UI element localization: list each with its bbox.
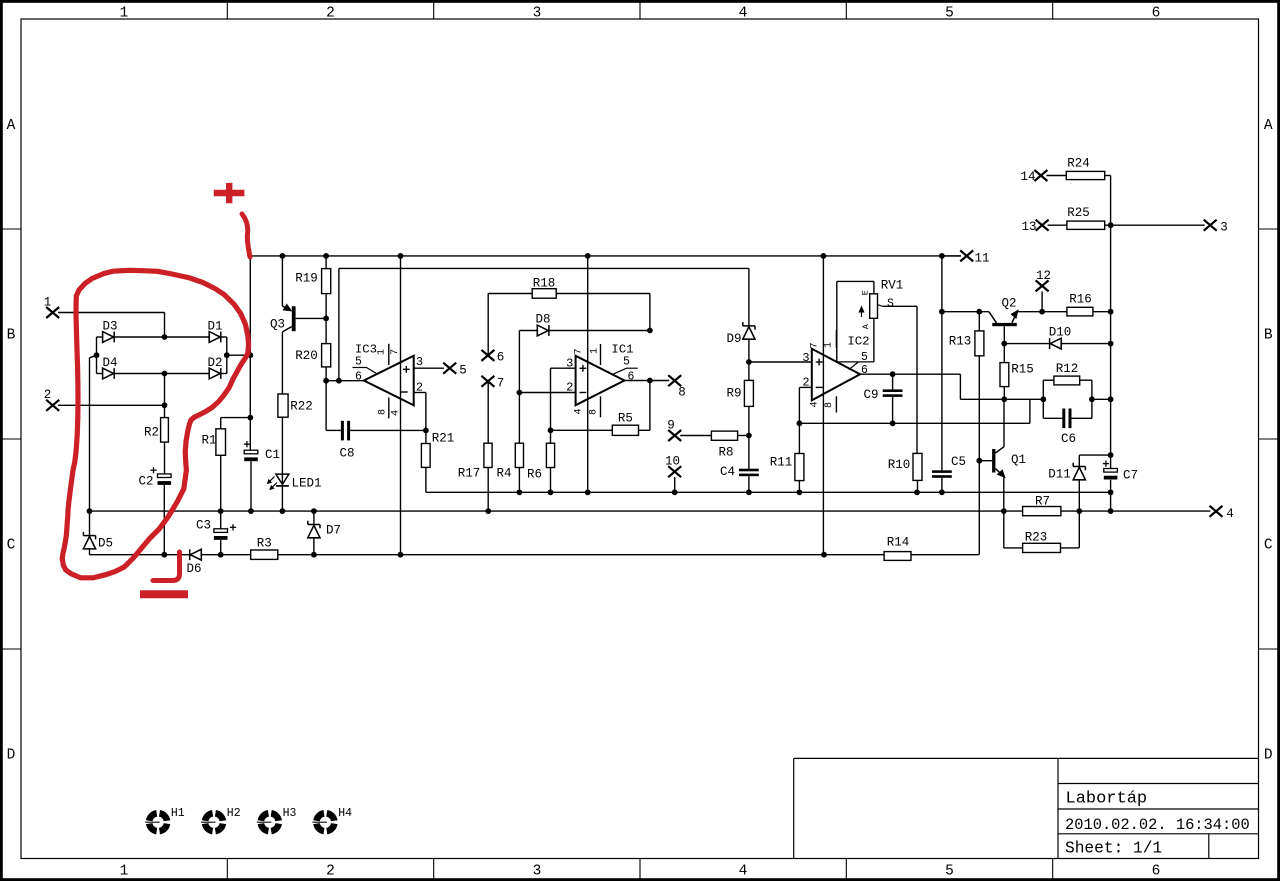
title block outline (794, 758, 1259, 858)
capacitor C2 (138, 467, 171, 555)
diode D4 (97, 356, 168, 379)
svg-text:H2: H2 (227, 807, 241, 820)
resistor R19 (295, 256, 330, 344)
svg-text:1: 1 (120, 6, 129, 22)
svg-text:7: 7 (497, 377, 505, 391)
svg-text:3: 3 (1220, 221, 1228, 235)
svg-text:4: 4 (739, 864, 748, 880)
svg-text:1: 1 (120, 864, 129, 880)
title text sheet (1065, 840, 1162, 858)
resistor R15 (1000, 344, 1034, 403)
svg-text:8: 8 (824, 402, 835, 408)
svg-text:6: 6 (497, 351, 505, 365)
svg-text:4: 4 (574, 408, 585, 414)
svg-text:C4: C4 (720, 465, 735, 479)
svg-text:R10: R10 (888, 458, 911, 472)
svg-text:8: 8 (678, 386, 686, 400)
resistor R1 (201, 418, 250, 512)
svg-text:5: 5 (459, 364, 467, 378)
svg-text:C3: C3 (196, 519, 211, 533)
title block row lines (1058, 784, 1259, 859)
frame column labels top (120, 6, 1161, 22)
resistor R9 (726, 362, 753, 436)
resistor R13 (949, 312, 984, 555)
trimmer RV1 (837, 278, 917, 362)
svg-text:6: 6 (628, 370, 635, 383)
svg-text:2: 2 (416, 381, 423, 395)
capacitor C9 (863, 371, 902, 426)
svg-text:3: 3 (533, 6, 542, 22)
svg-text:A: A (861, 323, 871, 329)
svg-text:1: 1 (44, 296, 52, 310)
svg-text:5: 5 (355, 356, 362, 369)
svg-text:11: 11 (974, 252, 989, 266)
svg-text:IC3: IC3 (355, 343, 377, 357)
svg-text:D11: D11 (1048, 467, 1071, 481)
svg-text:6: 6 (1152, 6, 1161, 22)
svg-text:D10: D10 (1049, 326, 1072, 340)
capacitor C4 (720, 436, 759, 493)
svg-text:5: 5 (861, 351, 868, 364)
red annotation minus sign (140, 590, 188, 598)
terminal 12 (1036, 269, 1051, 312)
svg-text:RV1: RV1 (881, 278, 904, 292)
svg-text:C2: C2 (138, 475, 153, 489)
svg-text:R13: R13 (949, 335, 972, 349)
frame column labels bottom (120, 864, 1161, 880)
wire top +V rail (250, 253, 961, 259)
capacitor C3 (196, 511, 236, 555)
svg-text:6: 6 (1152, 864, 1161, 880)
svg-text:3: 3 (566, 357, 573, 371)
mounting hole H4 (312, 807, 352, 831)
svg-text:1: 1 (824, 342, 835, 348)
svg-text:D: D (7, 748, 16, 764)
title text date (1065, 816, 1250, 834)
wire bridge left rail (90, 337, 100, 511)
svg-text:9: 9 (667, 418, 675, 432)
op-amp IC3 (326, 256, 444, 555)
svg-text:H3: H3 (283, 807, 297, 820)
svg-text:Labortáp: Labortáp (1066, 790, 1148, 809)
terminal X1 (44, 296, 168, 340)
resistor R18 (488, 276, 650, 330)
resistor R21 (421, 430, 454, 492)
svg-text:14: 14 (1020, 170, 1035, 184)
resistor R16 (1067, 292, 1114, 316)
wire Q2 emitter to R16 (1017, 309, 1067, 315)
svg-text:A: A (7, 118, 16, 134)
wire ground rail y492 (426, 489, 1114, 495)
svg-text:4: 4 (390, 410, 401, 416)
svg-text:3: 3 (533, 864, 542, 880)
svg-text:6: 6 (861, 364, 868, 377)
svg-text:R8: R8 (718, 445, 733, 459)
svg-text:LED1: LED1 (291, 477, 321, 491)
svg-text:R23: R23 (1025, 530, 1048, 544)
diode D2 (165, 356, 227, 379)
op-amp IC1 (566, 256, 638, 492)
svg-text:H1: H1 (171, 807, 185, 820)
red annotation L mark at D6 (153, 552, 180, 581)
wire +V vertical from bridge (247, 256, 253, 450)
resistor R22 (278, 394, 313, 474)
red annotation squiggle to +V rail (242, 214, 250, 257)
svg-text:5: 5 (623, 356, 630, 369)
svg-text:D1: D1 (207, 320, 222, 334)
svg-text:D4: D4 (102, 356, 117, 370)
svg-text:D7: D7 (326, 524, 341, 538)
svg-text:5: 5 (945, 6, 954, 22)
frame row ticks right (1259, 229, 1279, 649)
terminal X5 (443, 363, 467, 378)
svg-text:R20: R20 (295, 349, 318, 363)
frame row ticks left (2, 229, 21, 649)
wire IC1 inverting net (519, 392, 575, 394)
svg-text:7: 7 (390, 349, 401, 355)
mounting hole H3 (257, 807, 297, 831)
svg-text:A: A (1264, 118, 1273, 134)
svg-text:4: 4 (739, 6, 748, 22)
resistor R3 (251, 537, 278, 560)
svg-text:R6: R6 (527, 468, 542, 482)
svg-text:R7: R7 (1035, 494, 1050, 508)
transistor Q1 (979, 399, 1026, 511)
terminal X3 (1204, 220, 1228, 235)
resistor R5 (551, 381, 650, 436)
wire IC2 output run (860, 374, 1046, 402)
svg-text:D: D (1264, 748, 1273, 764)
svg-text:D9: D9 (726, 332, 741, 346)
zener diode D9 (726, 322, 755, 365)
title text Labortap (1066, 790, 1148, 809)
svg-text:6: 6 (355, 371, 362, 384)
wire IC2 inverting feedback net y423 (799, 399, 1030, 423)
frame column ticks top (227, 2, 1052, 19)
svg-text:5: 5 (945, 864, 954, 880)
transistor Q3 (270, 256, 326, 394)
diode D8 (519, 312, 652, 392)
diode D3 (97, 320, 165, 343)
svg-text:R16: R16 (1069, 292, 1092, 306)
resistor R8 (680, 431, 752, 459)
frame row labels left (7, 118, 16, 764)
frame row labels right (1264, 118, 1273, 764)
svg-text:C6: C6 (1061, 432, 1076, 446)
svg-text:C5: C5 (951, 455, 966, 469)
svg-text:R24: R24 (1067, 156, 1090, 170)
diode D1 (165, 320, 227, 343)
svg-text:S: S (887, 298, 894, 311)
svg-text:3: 3 (802, 351, 809, 365)
capacitor C8 (326, 381, 429, 461)
capacitor C1 (244, 441, 280, 511)
terminal X10 (665, 455, 681, 493)
svg-text:10: 10 (665, 455, 680, 469)
capacitor C7 (1103, 461, 1138, 483)
resistor R10 (888, 453, 922, 492)
svg-text:4: 4 (810, 401, 821, 407)
svg-text:R3: R3 (257, 537, 272, 551)
svg-text:8: 8 (589, 409, 600, 415)
resistor R17 (458, 443, 492, 511)
resistor R2 (144, 374, 168, 474)
svg-text:Q2: Q2 (1001, 297, 1016, 311)
resistor R12 capacitor C6 parallel (1043, 362, 1110, 446)
resistor R14 (884, 536, 911, 561)
transistor Q2 (989, 297, 1018, 344)
terminal X11 (942, 250, 990, 265)
svg-text:R21: R21 (432, 432, 455, 446)
svg-text:R15: R15 (1011, 362, 1034, 376)
svg-text:IC2: IC2 (847, 335, 869, 349)
svg-text:B: B (7, 328, 16, 344)
svg-text:E: E (861, 290, 871, 295)
svg-text:2: 2 (44, 388, 52, 402)
wire second rail IC3 feedback to D9 (339, 268, 749, 380)
svg-text:8: 8 (378, 409, 389, 415)
svg-text:R1: R1 (201, 434, 216, 448)
svg-text:7: 7 (810, 342, 821, 348)
svg-text:Sheet: 1/1: Sheet: 1/1 (1065, 840, 1162, 858)
svg-text:R18: R18 (533, 276, 556, 290)
svg-text:C: C (7, 538, 16, 554)
zener diode D11 (1048, 455, 1110, 511)
wire RV1 wiper to R10 (916, 306, 918, 453)
svg-text:R9: R9 (726, 387, 741, 401)
svg-text:C7: C7 (1123, 468, 1138, 482)
svg-text:B: B (1264, 328, 1273, 344)
wire bridge right rail (224, 337, 250, 374)
resistor R25 (1021, 206, 1113, 234)
svg-text:R4: R4 (496, 467, 511, 481)
wire right vertical bus (1108, 176, 1114, 512)
svg-text:C1: C1 (265, 448, 280, 462)
op-amp IC2 (799, 256, 874, 555)
wire bottom rail y554.7 (90, 552, 979, 558)
LED LED1 (268, 474, 322, 511)
terminal X4 (1210, 506, 1234, 521)
svg-text:2: 2 (326, 864, 335, 880)
svg-text:1: 1 (377, 349, 388, 355)
svg-text:13: 13 (1021, 220, 1036, 234)
svg-text:R19: R19 (295, 272, 318, 286)
terminal X8 (668, 375, 686, 399)
svg-text:3: 3 (416, 355, 423, 369)
svg-text:R11: R11 (770, 456, 793, 470)
resistor R23 (1004, 511, 1080, 552)
wire IC2 noninverting net (749, 361, 812, 363)
svg-text:2010.02.02. 16:34:00: 2010.02.02. 16:34:00 (1065, 816, 1250, 834)
resistor R11 (770, 420, 804, 492)
svg-text:IC1: IC1 (611, 343, 633, 357)
terminal X7 (481, 376, 504, 443)
wire mid rail y511 to X4 (87, 508, 1211, 514)
svg-text:R14: R14 (887, 536, 910, 550)
capacitor C5 (932, 312, 966, 493)
svg-text:R12: R12 (1056, 362, 1079, 376)
zener diode D7 (308, 511, 341, 555)
zener diode D5 (83, 511, 113, 555)
terminal X2 (44, 388, 168, 411)
resistor R7 (1023, 494, 1061, 515)
svg-text:D2: D2 (207, 356, 222, 370)
svg-text:C8: C8 (339, 447, 354, 461)
terminal X9 (667, 418, 681, 441)
svg-text:4: 4 (1226, 507, 1234, 521)
svg-text:D3: D3 (102, 320, 117, 334)
svg-text:C9: C9 (863, 388, 878, 402)
svg-text:R2: R2 (144, 426, 159, 440)
diode D10 (1001, 326, 1110, 350)
wire R25 to X3 (1111, 224, 1205, 226)
mounting hole H2 (201, 807, 241, 831)
wire IC1 output to X8 (624, 378, 669, 384)
svg-text:Q1: Q1 (1011, 453, 1026, 467)
resistor R4 (496, 390, 523, 493)
svg-text:2: 2 (326, 6, 335, 22)
mounting hole H1 (145, 807, 185, 831)
resistor R6 (527, 430, 555, 492)
svg-text:7: 7 (574, 348, 585, 354)
diode D6 (186, 549, 201, 576)
red annotation plus sign (214, 183, 245, 203)
svg-text:D6: D6 (186, 562, 201, 576)
wire Q2 collector rail (942, 309, 989, 315)
svg-text:D8: D8 (535, 312, 550, 326)
svg-text:1: 1 (590, 348, 601, 354)
svg-text:Q3: Q3 (270, 318, 285, 332)
svg-text:R22: R22 (290, 400, 313, 414)
svg-text:H4: H4 (338, 807, 352, 820)
frame column ticks bottom (227, 859, 1052, 879)
svg-text:2: 2 (566, 381, 573, 395)
wire IC1 noninverting net (548, 368, 576, 433)
svg-text:C: C (1264, 538, 1273, 554)
svg-text:R5: R5 (618, 411, 633, 425)
wire X11 branch down (939, 256, 945, 315)
svg-text:R25: R25 (1067, 206, 1090, 220)
resistor R20 (295, 344, 330, 384)
svg-text:D5: D5 (98, 537, 113, 551)
svg-text:R17: R17 (458, 467, 481, 481)
resistor R24 (1020, 156, 1110, 184)
terminal X6 (481, 294, 504, 365)
red annotation loop around bridge (62, 270, 248, 578)
